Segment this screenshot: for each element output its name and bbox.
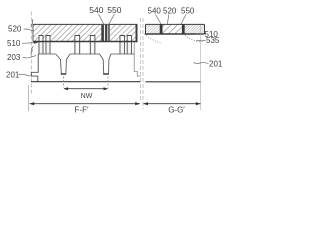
svg-text:520: 520: [163, 7, 177, 16]
ILD block right: [185, 24, 205, 34]
band left edge: [32, 24, 34, 41]
svg-text:535: 535: [206, 36, 220, 45]
F-F' arrow right: [135, 102, 140, 105]
leader 510: [22, 42, 36, 45]
break squiggle lower left: [31, 47, 33, 55]
leader 510 right: [196, 33, 204, 36]
leader 520: [24, 29, 34, 30]
NW arrow right: [104, 87, 109, 90]
right band top edge: [146, 23, 205, 25]
fin F5: [120, 36, 124, 55]
gate insulating layer 510 line: [33, 41, 138, 43]
G-G' dimension line: [144, 103, 201, 105]
NW extension tick right: [107, 77, 109, 88]
leader 203: [23, 56, 37, 58]
leader 535 right: [196, 39, 206, 42]
NW arrow left: [64, 87, 69, 90]
doped region 535 dotted right: [185, 35, 204, 41]
svg-text:G-G′: G-G′: [168, 105, 185, 114]
fin F6: [127, 36, 131, 55]
contact column 540/550 slot: [102, 24, 110, 41]
svg-text:550: 550: [181, 7, 195, 16]
band top edge: [33, 23, 138, 25]
trench floor line: [38, 53, 135, 55]
leader 540 right: [156, 15, 162, 25]
deep trench V1 bottom: [61, 73, 66, 75]
NW dimension line: [64, 88, 108, 90]
cut boundary line right: [139, 18, 141, 100]
svg-text:510: 510: [7, 39, 21, 48]
fin F1: [39, 36, 43, 55]
fin F2: [46, 36, 50, 55]
deep trench V2: [100, 54, 111, 74]
gate electrode 520 hatched band: [33, 24, 138, 41]
band right edge: [136, 24, 138, 42]
deep trench V1: [56, 54, 70, 74]
deep trench V2 bottom: [103, 73, 109, 75]
doped region 535 dotted left: [146, 36, 161, 43]
substrate 201 bottom line: [31, 81, 141, 83]
right band left edge: [145, 24, 147, 34]
svg-text:203: 203: [7, 53, 21, 62]
svg-text:520: 520: [8, 25, 22, 34]
G-G' extension line right: [200, 26, 202, 110]
svg-text:NW: NW: [81, 93, 93, 100]
break squiggle upper left: [31, 20, 33, 28]
cut boundary line left: [30, 12, 32, 96]
leader 510 arrowhead: [34, 41, 39, 44]
leader 550 right: [181, 15, 186, 25]
fin F4: [90, 36, 95, 55]
left mesa edge step: [31, 54, 38, 82]
leader 550: [109, 14, 115, 24]
F-F' extension line left: [28, 85, 30, 111]
substrate 201 bottom line right: [146, 81, 202, 83]
G-G' arrow left: [143, 102, 148, 105]
G-G' extension line left: [142, 18, 144, 109]
fin F3: [75, 36, 80, 55]
F-F' arrow left: [29, 102, 34, 105]
svg-text:540: 540: [148, 7, 162, 16]
svg-text:201: 201: [209, 59, 223, 68]
F-F' dimension line: [30, 103, 140, 105]
right band right edge: [204, 24, 206, 34]
contact bar 540 inner: [105, 25, 107, 42]
leader 201 right: [194, 62, 209, 63]
contact bar 540: [102, 25, 104, 42]
svg-text:550: 550: [107, 5, 121, 15]
liner bar 550: [108, 25, 109, 42]
svg-text:201: 201: [6, 70, 20, 79]
ILD block left: [146, 24, 160, 34]
spacer bar 550: [182, 24, 185, 34]
leader 201 left: [19, 74, 31, 76]
leader 540: [99, 14, 104, 24]
gate insulating layer 510 line right: [145, 33, 205, 35]
gate 520 center: [163, 24, 182, 34]
fin inner stipple lines: [40, 43, 130, 54]
right mesa edge step: [134, 43, 140, 77]
leader 520 right: [167, 15, 168, 25]
NW extension tick left: [62, 77, 64, 88]
spacer bar 540: [160, 24, 163, 34]
svg-text:F-F′: F-F′: [75, 105, 89, 114]
svg-text:540: 540: [89, 5, 103, 15]
G-G' arrow right: [196, 102, 201, 105]
